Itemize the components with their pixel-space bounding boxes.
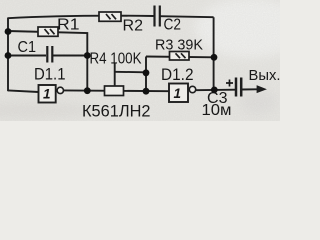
wire bottom rail D1.1 output to D1.2 input (64, 89, 169, 92)
wire R3 horizontal (146, 56, 214, 59)
svg-text:1: 1 (174, 86, 182, 101)
wire output arrow (242, 86, 266, 93)
wire D1.1 input (8, 90, 39, 92)
wire top rail (8, 16, 214, 19)
node D junction output (211, 87, 218, 94)
wire D1.2 output (196, 89, 235, 92)
svg-text:К561ЛН2: К561ЛН2 (82, 102, 151, 121)
resistor R1 (38, 27, 58, 36)
paper background (0, 0, 280, 121)
node B junction at bottom rail (84, 87, 91, 94)
svg-text:R3 39K: R3 39K (155, 37, 203, 54)
svg-text:10м: 10м (202, 102, 232, 119)
wire stub horizontal (115, 71, 146, 74)
node A lower junction (5, 52, 12, 59)
svg-text:D1.1: D1.1 (34, 66, 66, 84)
resistor R3 (170, 52, 190, 61)
svg-text:C1: C1 (18, 39, 37, 56)
capacitor C2 (155, 6, 160, 27)
svg-text:R1: R1 (57, 17, 80, 34)
wire R3 left vertical (145, 57, 147, 92)
wire node B vertical (86, 56, 88, 91)
inverter D1.2 (169, 84, 196, 103)
resistor R4 (105, 86, 124, 96)
node B junction at C1 (84, 52, 91, 59)
node D junction R3 right (211, 54, 218, 61)
svg-text:D1.2: D1.2 (161, 66, 194, 84)
wire R4 wiper stub (114, 64, 116, 87)
wire right vertical (213, 17, 215, 90)
wire R1 branch (8, 31, 87, 56)
node A upper junction (5, 28, 12, 35)
resistor R2 (99, 12, 121, 21)
svg-text:Вых.: Вых. (249, 67, 281, 84)
capacitor C3 polarity plus (226, 80, 233, 87)
capacitor C3 (236, 78, 241, 97)
svg-text:R2: R2 (123, 18, 144, 35)
wire C1 branch (8, 55, 87, 57)
svg-text:R4 100K: R4 100K (90, 51, 143, 68)
capacitor C1 (47, 46, 52, 63)
svg-text:1: 1 (43, 87, 51, 102)
node C junction stub (143, 69, 150, 76)
node C junction bottom rail (143, 88, 150, 95)
inverter D1.1 (39, 85, 64, 103)
wire left vertical (7, 18, 9, 92)
svg-text:C2: C2 (164, 17, 182, 34)
